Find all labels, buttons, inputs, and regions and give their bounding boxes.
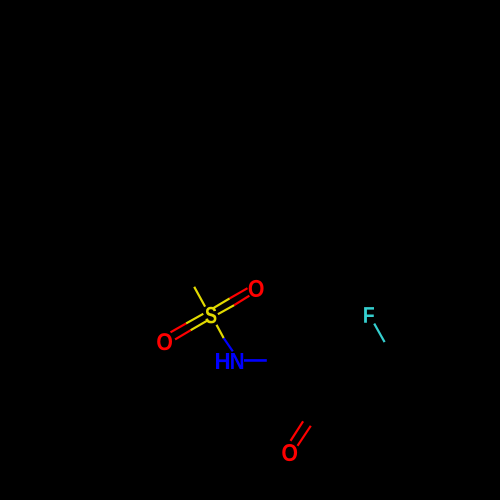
atom N1 hydrogen label H (blue) — [216, 353, 229, 369]
wire: bond S1=O1 lower line, S half (yellow) — [218, 305, 234, 314]
wire: bond S1-C1 (methyl, S half, yellow) — [194, 287, 205, 307]
wire: bond S1=O1 upper line, S half (yellow) — [213, 298, 230, 308]
wire: bond S1-N1, S half (yellow) — [217, 325, 224, 338]
wire: bond F1-C5 (F half, teal) — [374, 324, 384, 343]
wire: bond S1=O2 upper line, O half (red) — [171, 323, 187, 332]
wire: bond S1=O1 lower line, O half (red) — [234, 296, 249, 306]
atom N1 (amide nitrogen, blue) — [231, 353, 243, 369]
wire: bond S1-N1, N half (blue) — [224, 338, 233, 351]
atom O1 (sulfonyl oxygen, upper right) — [249, 280, 264, 297]
wire: bond S1=O2 lower line, O half (red) — [175, 330, 191, 339]
wire: bond S1=O1 upper line, O half (red) — [230, 288, 248, 298]
wire: bond S1=O2 lower line, S half (yellow) — [191, 321, 207, 330]
wire: bond N1-C2 (N half, blue) — [244, 359, 267, 362]
atom O2 (sulfonyl oxygen, lower left) — [157, 333, 172, 350]
atom F1 (fluorine, teal) — [364, 307, 374, 323]
wire: bond S1=O2 upper line, S half (yellow) — [186, 314, 203, 324]
wire: bond C3=O3 left line (O half, red) — [291, 421, 304, 441]
atom S1 (sulfur) — [205, 307, 216, 324]
atom O3 (ketone oxygen, bottom) — [282, 444, 297, 461]
wire: bond C3=O3 right line (O half, red) — [298, 426, 311, 446]
